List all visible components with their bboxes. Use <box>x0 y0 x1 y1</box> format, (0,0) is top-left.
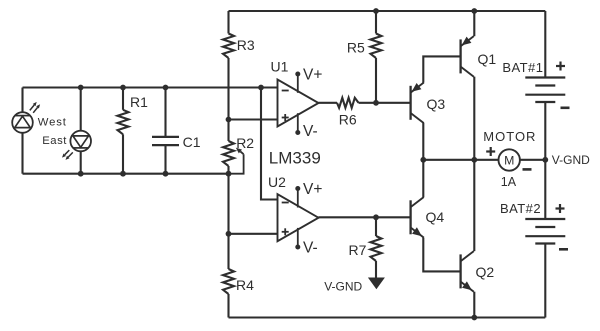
node East bottom <box>78 171 84 177</box>
wire R2 bottom to R4 <box>227 166 229 269</box>
BAT#2 - sign <box>559 248 568 251</box>
node R2 column / U2 + junction <box>226 231 232 237</box>
svg-text:1A: 1A <box>501 175 517 189</box>
wire Q1 emitter lead <box>473 11 475 36</box>
wire top V+ rail <box>229 10 546 12</box>
svg-text:Q2: Q2 <box>476 264 495 280</box>
transistor Q2 (NPN) <box>459 254 461 288</box>
BAT#1 - sign <box>561 107 570 110</box>
wire branch to U2 - input <box>261 88 278 200</box>
wire motor to V-GND node <box>520 159 546 161</box>
wire East diode bottom lead <box>80 151 82 173</box>
node Q1 emitter on rail <box>471 8 477 14</box>
node East top <box>78 85 84 91</box>
transistor Q1 (PNP) <box>459 39 461 73</box>
node R5 top on rail <box>373 8 379 14</box>
wire BAT#1 positive lead <box>544 11 546 78</box>
resistor R6 <box>337 98 359 108</box>
resistor R3 <box>223 34 234 59</box>
svg-text:BAT#1: BAT#1 <box>502 60 543 75</box>
resistor R4 <box>223 269 234 294</box>
wire R5 top lead <box>375 11 377 34</box>
R2 wiper arrow <box>240 152 243 155</box>
ground V-GND symbol <box>368 278 385 290</box>
wire Q2 collector lead <box>473 160 475 251</box>
svg-text:V-GND: V-GND <box>324 280 362 294</box>
East light arrows <box>65 150 70 155</box>
wire R7 top lead <box>375 217 377 236</box>
U2 V+ pin <box>297 189 299 208</box>
svg-text:West: West <box>38 117 67 129</box>
svg-text:East: East <box>42 135 67 147</box>
node sensor bottom / R2 junction <box>226 171 232 177</box>
op-amp U1 (LM339 comparator) <box>278 80 319 127</box>
resistor R1 <box>118 110 129 135</box>
wire U1 + input <box>229 118 278 120</box>
svg-text:Q3: Q3 <box>427 96 446 112</box>
svg-text:Q1: Q1 <box>478 51 497 67</box>
wire R2 wiper link <box>229 154 244 174</box>
wire R4 bottom to V- rail <box>227 294 229 318</box>
wire Q1 collector lead <box>473 77 475 160</box>
wire BAT#2 negative lead <box>544 243 546 317</box>
capacitor C1 <box>152 136 179 138</box>
transistor Q3 (PNP) <box>409 86 411 120</box>
wire sensor bottom bus <box>23 173 229 175</box>
svg-text:R1: R1 <box>130 94 148 110</box>
svg-text:R5: R5 <box>347 40 365 56</box>
svg-text:LM339: LM339 <box>269 148 321 167</box>
wire motor node bus <box>423 159 498 161</box>
node R1 top <box>120 85 126 91</box>
wire U2 output to Q4 base <box>319 216 411 218</box>
U1 V+ pin <box>297 74 299 93</box>
svg-text:V-: V- <box>303 240 318 257</box>
wire West diode top lead <box>21 88 23 113</box>
wire U1 output to R6 <box>319 102 338 104</box>
node R7/U2 output/Q4 base <box>373 214 379 220</box>
wire Q4 collector lead <box>422 160 424 197</box>
wire C1 bottom lead <box>164 145 166 174</box>
svg-text:R7: R7 <box>349 242 367 258</box>
wire V-GND to BAT#2 <box>544 160 546 219</box>
svg-text:V-GND: V-GND <box>552 153 590 167</box>
svg-text:U2: U2 <box>268 174 286 190</box>
node V-GND battery junction <box>542 157 548 163</box>
wire East diode top lead <box>80 88 82 131</box>
motor + sign <box>486 150 495 152</box>
node Q3/Q4 collectors <box>420 157 426 163</box>
wire bottom V- rail <box>229 316 546 318</box>
node R1 bottom <box>120 171 126 177</box>
svg-text:BAT#2: BAT#2 <box>500 201 541 216</box>
transistor Q4 (NPN) <box>409 200 411 234</box>
battery BAT#1 <box>525 76 565 78</box>
LED West (photo sensor) <box>12 112 33 133</box>
U1 V- pin <box>297 113 299 132</box>
node R3/R2/U1+ junction <box>226 117 232 123</box>
svg-text:R3: R3 <box>237 37 255 53</box>
resistor R2 (trimmer) <box>223 141 234 166</box>
wire Q4 emitter to Q2 base <box>423 238 460 272</box>
node R5/R6/Q3 base <box>373 100 379 106</box>
svg-text:R4: R4 <box>236 277 254 293</box>
resistor R7 <box>371 236 382 261</box>
svg-text:Q4: Q4 <box>426 209 445 225</box>
wire Q1 base to Q3 emitter <box>423 56 460 82</box>
wire R6 to Q3 base <box>359 102 411 104</box>
svg-text:C1: C1 <box>183 134 201 150</box>
wire R5 bottom lead <box>375 58 377 103</box>
svg-text:R6: R6 <box>339 112 357 128</box>
op-amp U2 (LM339 comparator) <box>278 194 319 241</box>
node Q2 emitter on V- rail <box>471 315 477 321</box>
wire West diode bottom lead <box>21 133 23 174</box>
wire Q3 collector lead <box>422 123 424 160</box>
svg-text:V+: V+ <box>303 67 322 84</box>
resistor R5 <box>371 34 382 59</box>
wire R7 bottom lead <box>375 261 377 279</box>
node C1 bottom <box>163 171 169 177</box>
svg-text:M: M <box>504 153 514 167</box>
svg-text:V+: V+ <box>303 181 322 198</box>
svg-text:R2: R2 <box>236 135 254 151</box>
wire R1 top lead <box>122 88 124 110</box>
motor M1 <box>499 149 520 170</box>
node Q1/Q2 collectors / motor + <box>471 157 477 163</box>
node sensor bus to U2 branch <box>258 85 264 91</box>
wire sensor top bus <box>23 86 278 88</box>
BAT#2 + sign <box>556 207 565 209</box>
motor - sign <box>523 168 532 171</box>
svg-text:MOTOR: MOTOR <box>483 129 536 144</box>
wire Q2 emitter lead <box>473 292 475 318</box>
LED East (photo sensor) <box>70 131 91 152</box>
BAT#1 + sign <box>556 65 565 67</box>
wire C1 top lead <box>164 88 166 137</box>
svg-text:U1: U1 <box>271 59 289 75</box>
wire R3 bottom to node <box>227 58 229 141</box>
battery BAT#2 <box>525 218 565 220</box>
West light arrows <box>30 105 34 110</box>
U2 V- pin <box>297 228 299 247</box>
wire R1 bottom lead <box>122 134 124 173</box>
wire R3 top from rail <box>227 11 229 34</box>
svg-text:V-: V- <box>303 123 318 140</box>
wire BAT#1 to V-GND <box>544 102 546 160</box>
node C1 top <box>163 85 169 91</box>
wire U2 + input <box>229 233 278 235</box>
